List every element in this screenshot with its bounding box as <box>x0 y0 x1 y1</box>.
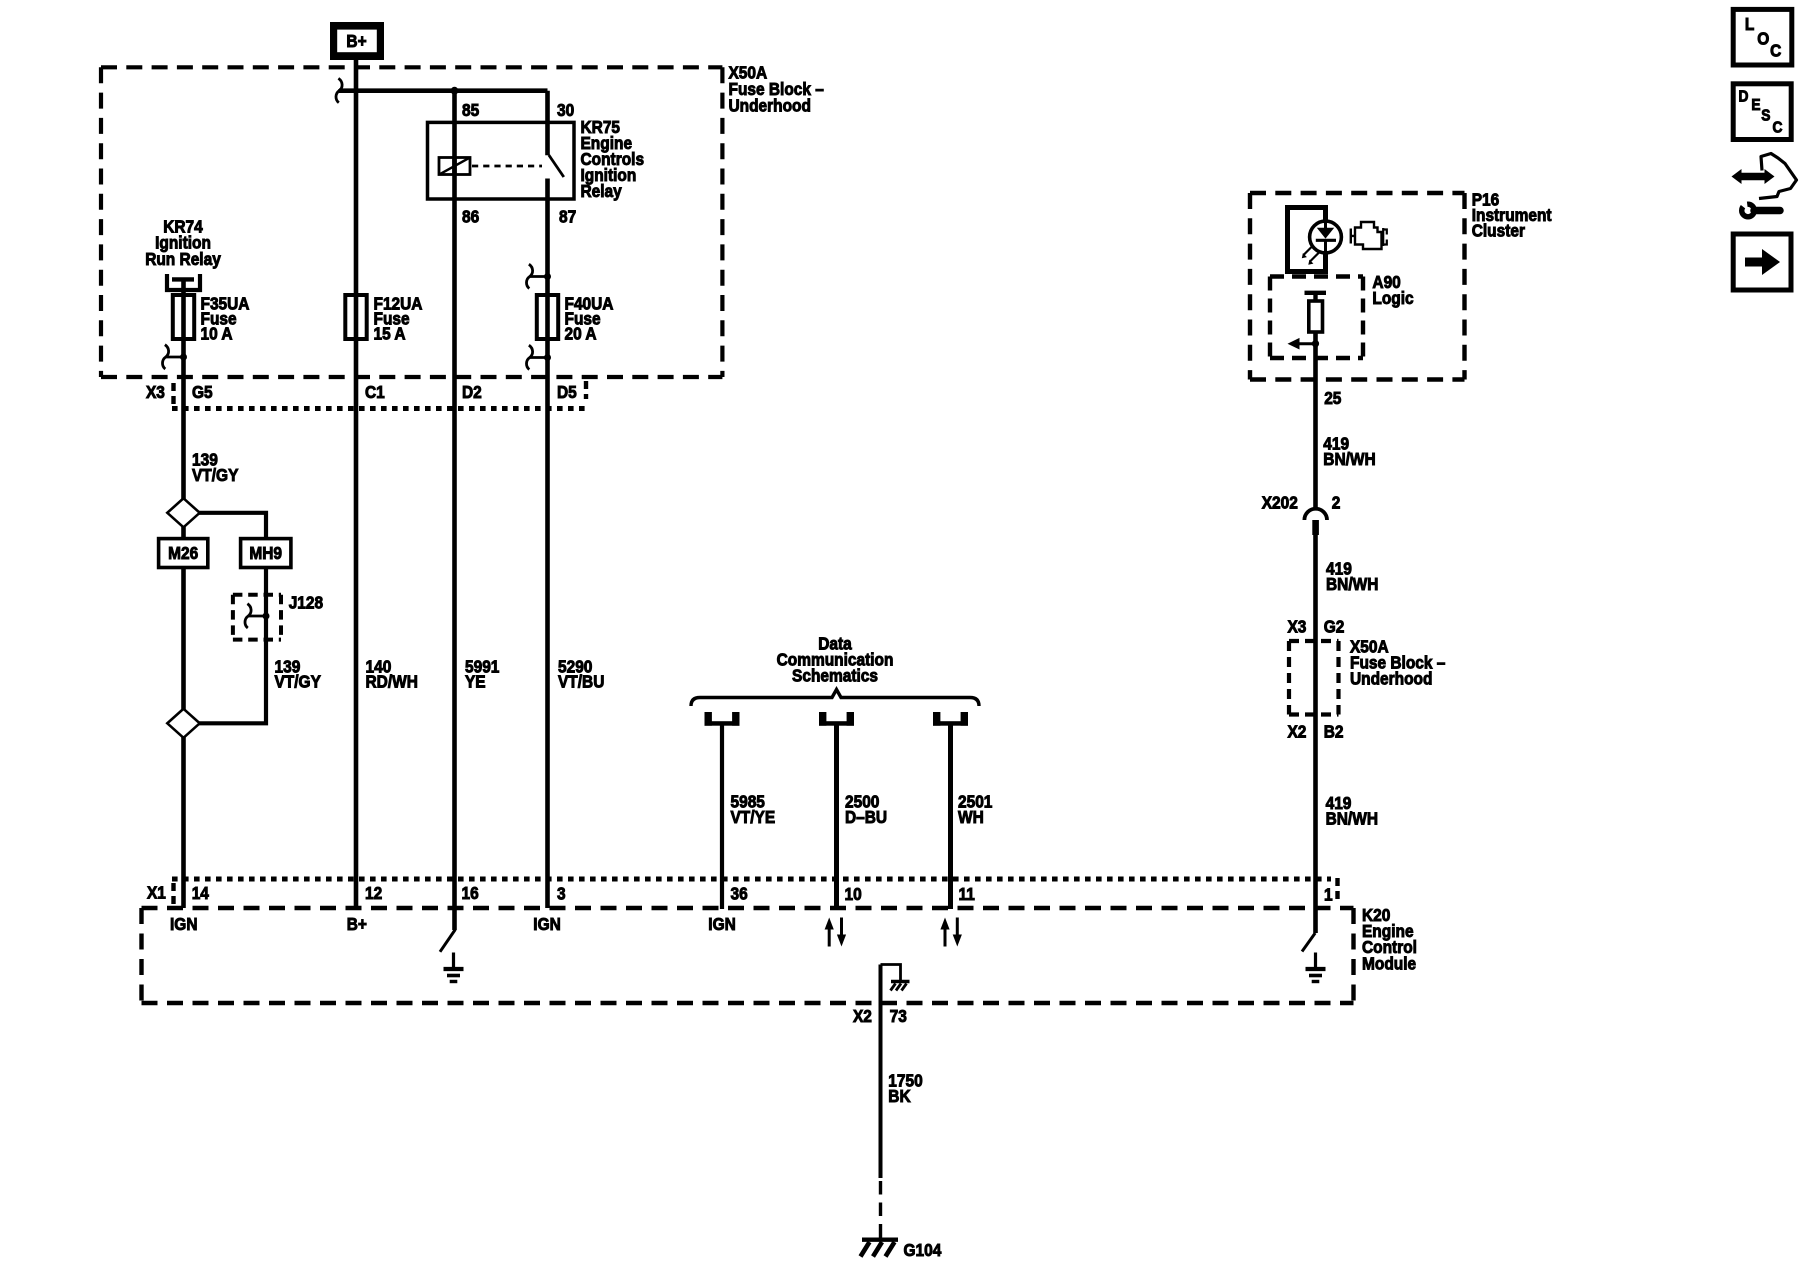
svg-text:15 A: 15 A <box>374 324 406 344</box>
label A90 Logic <box>1372 272 1400 292</box>
LED emission arrows <box>1304 246 1313 255</box>
svg-text:X202: X202 <box>1262 493 1298 513</box>
connector X202 pin 2 (inline) <box>1304 509 1327 520</box>
svg-text:Underhood: Underhood <box>1350 669 1432 689</box>
svg-text:10 A: 10 A <box>201 324 233 344</box>
connector X50A Fuse Block - Underhood (pass-through, dashed box) <box>1289 641 1339 715</box>
splice pigtail inside J128 <box>263 613 270 620</box>
pin 87 <box>559 206 576 226</box>
wire: KR74 output through F35UA to ECM pin 14 <box>181 279 186 908</box>
fuse F35UA 10 A <box>173 295 194 339</box>
splice pigtail below F40UA <box>544 354 551 361</box>
svg-text:VT/YE: VT/YE <box>731 807 776 827</box>
pin C1 <box>365 382 385 402</box>
wire label 139 VT/GY (lower) <box>275 656 301 676</box>
junction dot at coil feed (pin 85 branch) <box>451 87 459 95</box>
svg-text:VT/GY: VT/GY <box>275 672 321 692</box>
chassis ground (internal) <box>891 980 910 983</box>
relay KR75 contact switch blade <box>549 155 564 177</box>
svg-text:G104: G104 <box>904 1240 942 1260</box>
pin 16 <box>462 883 479 903</box>
svg-text:BN/WH: BN/WH <box>1323 449 1375 469</box>
logic driver terminal bar <box>1305 291 1327 295</box>
pin 25 <box>1324 388 1341 408</box>
svg-text:20 A: 20 A <box>565 324 597 344</box>
svg-text:73: 73 <box>890 1006 907 1026</box>
wire label 5991 YE <box>465 656 499 676</box>
pin 85 <box>462 100 479 120</box>
LED indicator (circle + diode) <box>1310 221 1342 253</box>
label X2 / pin B2 <box>1288 721 1307 741</box>
pin D2 <box>462 382 482 402</box>
svg-text:IGN: IGN <box>533 914 560 934</box>
svg-text:M26: M26 <box>168 543 198 563</box>
svg-text:Module: Module <box>1362 953 1416 973</box>
wire: ECM ground return (internal hook to chassis) <box>881 965 901 981</box>
pin G5 <box>192 382 213 402</box>
svg-text:Logic: Logic <box>1372 288 1413 308</box>
relay KR74 contact terminal symbol <box>167 274 200 290</box>
svg-text:25: 25 <box>1324 388 1341 408</box>
wire label 140 RD/WH <box>366 656 392 676</box>
svg-text:G2: G2 <box>1324 616 1345 636</box>
svg-text:X1: X1 <box>147 882 166 902</box>
svg-text:B2: B2 <box>1324 721 1344 741</box>
wire: B+ feed vertical (battery to ECM pin 12) <box>354 60 359 908</box>
wire: splice bus from B+ wire to relay pins 85/30 <box>339 88 548 93</box>
net IGN (pin 3) <box>533 914 560 934</box>
engine (MIL) icon <box>1351 229 1355 244</box>
pin 1 <box>1324 884 1333 904</box>
fuse F40UA 20 A <box>537 295 558 339</box>
wire: CAN low 2501 to ECM pin 11 <box>948 725 953 909</box>
off-page connector (2500) <box>820 713 826 726</box>
off-page connector (5985) <box>705 713 711 726</box>
wire: CAN high 2500 to ECM pin 10 <box>834 725 839 909</box>
pin 36 <box>731 883 748 903</box>
wire: LED drive inside A90 <box>1313 293 1317 301</box>
connector row X3 (fuse block bottom) <box>172 406 586 411</box>
wire label 419 BN/WH (upper) <box>1323 433 1349 453</box>
ground (internal, pin 1) <box>1314 953 1317 969</box>
svg-text:D5: D5 <box>557 382 577 402</box>
svg-text:X2: X2 <box>1288 721 1307 741</box>
svg-text:Relay: Relay <box>581 181 623 201</box>
component MH9 <box>241 539 291 568</box>
svg-text:VT/GY: VT/GY <box>192 465 238 485</box>
wire label 1750 BK <box>888 1070 922 1090</box>
splice pigtail on B+ wire <box>338 89 357 92</box>
connector X50A Fuse Block - Underhood (dashed outline) <box>101 67 722 377</box>
power symbol B+ <box>330 22 384 60</box>
icon vehicle/data double arrow <box>1741 173 1765 181</box>
svg-text:BK: BK <box>888 1086 910 1106</box>
indicator lamp housing <box>1288 208 1326 272</box>
bidirectional data arrows (pin 10) <box>828 928 831 947</box>
svg-text:VT/BU: VT/BU <box>558 672 604 692</box>
internal switch to ground (pin 16) <box>440 930 455 952</box>
wire: serial data 5985 to ECM pin 36 <box>720 725 724 909</box>
brace over data links <box>691 690 979 707</box>
svg-text:IGN: IGN <box>708 914 735 934</box>
svg-text:D2: D2 <box>462 382 482 402</box>
icon LOC box <box>1733 9 1792 65</box>
net IGN (pin 14) <box>170 914 197 934</box>
svg-text:E: E <box>1751 96 1760 114</box>
relay KR75 coil-contact dashed link <box>472 165 542 168</box>
svg-text:RD/WH: RD/WH <box>366 672 418 692</box>
svg-text:85: 85 <box>462 100 479 120</box>
svg-text:X2: X2 <box>853 1006 872 1026</box>
svg-text:WH: WH <box>958 807 984 827</box>
icon wrench <box>1739 202 1757 220</box>
connector row X1 (ECM) <box>172 877 1331 882</box>
wire label 2501 WH <box>958 791 992 811</box>
label X3 / pin G2 <box>1288 616 1307 636</box>
label Data Communication Schematics <box>818 633 852 653</box>
svg-text:10: 10 <box>845 884 862 904</box>
svg-text:C: C <box>1773 119 1783 137</box>
svg-text:G5: G5 <box>192 382 213 402</box>
svg-text:O: O <box>1757 28 1769 48</box>
module K20 Engine Control Module (dashed box) <box>142 908 1354 1003</box>
label X3 <box>146 382 165 402</box>
wire label 5985 VT/YE <box>731 791 765 811</box>
bidirectional data arrows (pin 11) <box>944 928 947 947</box>
svg-text:Schematics: Schematics <box>792 665 878 685</box>
splice pigtail above F40UA <box>544 273 551 280</box>
wire label 419 BN/WH (lower) <box>1326 793 1352 813</box>
svg-text:D: D <box>1739 88 1749 106</box>
pin 14 <box>192 883 210 903</box>
label J128 <box>289 592 323 612</box>
relay KR75 coil <box>439 158 470 175</box>
component A90 Logic (dashed box) <box>1270 277 1363 359</box>
svg-text:30: 30 <box>557 100 574 120</box>
svg-text:87: 87 <box>559 206 576 226</box>
pin 2 <box>1332 493 1341 513</box>
svg-text:36: 36 <box>731 883 748 903</box>
svg-text:B+: B+ <box>346 31 366 51</box>
svg-text:BN/WH: BN/WH <box>1326 808 1378 828</box>
svg-text:X3: X3 <box>1288 616 1307 636</box>
pin D5 <box>557 382 577 402</box>
svg-text:Underhood: Underhood <box>729 95 811 115</box>
svg-text:D–BU: D–BU <box>845 807 887 827</box>
net IGN (pin 36) <box>708 914 735 934</box>
fuse F12UA 15 A <box>345 295 366 339</box>
pin 10 <box>845 884 862 904</box>
svg-text:1: 1 <box>1324 884 1333 904</box>
pin 30 <box>557 100 574 120</box>
pin 86 <box>462 206 479 226</box>
svg-text:C: C <box>1770 41 1781 61</box>
svg-text:IGN: IGN <box>170 914 197 934</box>
logic drive arrow <box>1298 342 1316 345</box>
pin 12 <box>365 883 382 903</box>
svg-text:3: 3 <box>557 883 566 903</box>
connector J128 (dashed box) <box>233 595 281 640</box>
component P16 Instrument Cluster (dashed box) <box>1250 193 1465 380</box>
off-page connector (2501) <box>934 713 940 726</box>
svg-text:X3: X3 <box>146 382 165 402</box>
internal switch to ground (pin 1) <box>1313 908 1318 933</box>
net B+ (pin 12) <box>347 914 367 934</box>
pin 3 <box>557 883 566 903</box>
svg-text:11: 11 <box>959 884 975 904</box>
svg-text:86: 86 <box>462 206 479 226</box>
svg-text:YE: YE <box>465 672 486 692</box>
splice pigtail below F35UA <box>180 354 187 361</box>
label X50A Fuse Block - Underhood <box>729 63 768 83</box>
label K20 Engine Control Module <box>1362 905 1390 925</box>
resistor (A90 internal) <box>1309 301 1323 332</box>
relay KR74 Ignition Run Relay (label) <box>163 216 203 236</box>
label X2 / pin 73 <box>853 1006 872 1026</box>
ground (internal, pin 16) <box>452 953 455 969</box>
wire: branch loop to MH9/J128 <box>184 513 267 724</box>
pin 11 <box>959 884 975 904</box>
svg-text:14: 14 <box>192 883 210 903</box>
icon forward arrow box <box>1733 234 1791 290</box>
svg-text:B+: B+ <box>347 914 367 934</box>
relay KR75 Engine Controls Ignition Relay (box) <box>428 122 575 199</box>
wire label 5290 VT/BU <box>558 656 592 676</box>
splice node S1 (diamond) <box>167 498 199 527</box>
ground G104 (chassis) <box>862 1237 898 1241</box>
splice node S2 (diamond) <box>167 709 199 738</box>
svg-text:L: L <box>1745 14 1754 34</box>
svg-text:2: 2 <box>1332 493 1341 513</box>
wire label 419 BN/WH (mid) <box>1326 558 1352 578</box>
svg-text:J128: J128 <box>289 592 323 612</box>
wire label 139 VT/GY (upper) <box>192 450 218 470</box>
svg-text:S: S <box>1761 106 1770 124</box>
svg-text:Cluster: Cluster <box>1472 221 1526 241</box>
label P16 Instrument Cluster <box>1472 189 1500 209</box>
svg-text:C1: C1 <box>365 382 385 402</box>
wire label 2500 D-BU <box>845 791 879 811</box>
wire: relay coil branch 85 down through fuse block to ECM pin 16 <box>452 91 457 930</box>
label X1 <box>147 882 166 902</box>
wire: relay contact branch 30/87 down through F40UA to ECM pin 3 <box>545 91 550 156</box>
component M26 <box>159 539 208 568</box>
svg-text:MH9: MH9 <box>249 543 282 563</box>
svg-text:16: 16 <box>462 883 479 903</box>
svg-text:12: 12 <box>365 883 382 903</box>
icon DESC box <box>1733 84 1791 140</box>
svg-text:BN/WH: BN/WH <box>1326 574 1378 594</box>
wire: ground 1750 BK from pin X2-73 <box>879 965 883 1179</box>
svg-text:Run Relay: Run Relay <box>145 249 221 269</box>
